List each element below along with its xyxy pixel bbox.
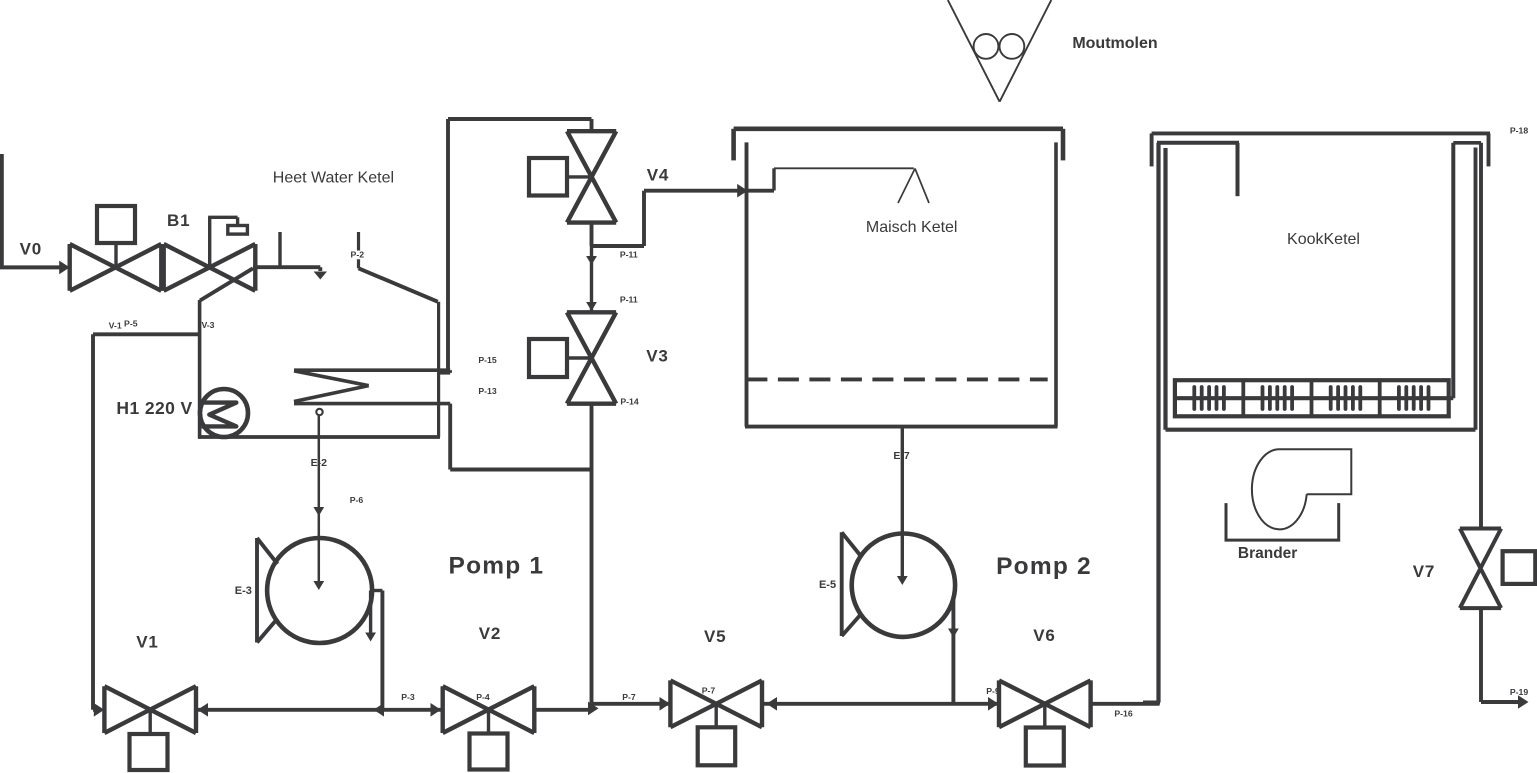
svg-text:V7: V7 [1413, 562, 1435, 581]
svg-text:P-11: P-11 [620, 250, 638, 260]
svg-text:Heet Water Ketel: Heet Water Ketel [273, 169, 394, 186]
svg-text:V1: V1 [136, 632, 158, 651]
svg-text:KookKetel: KookKetel [1287, 231, 1360, 248]
svg-text:H1 220 V: H1 220 V [116, 398, 192, 418]
svg-text:P-7: P-7 [622, 692, 636, 702]
svg-text:E-2: E-2 [311, 457, 328, 469]
svg-text:V2: V2 [479, 624, 501, 643]
svg-text:Maisch Ketel: Maisch Ketel [866, 219, 958, 236]
svg-text:Brander: Brander [1238, 545, 1297, 562]
svg-text:P-18: P-18 [1510, 126, 1529, 136]
svg-text:V4: V4 [647, 165, 669, 184]
svg-text:P-3: P-3 [401, 692, 415, 702]
svg-text:P-14: P-14 [620, 397, 639, 407]
svg-text:P-7: P-7 [702, 686, 716, 696]
svg-text:Pomp 1: Pomp 1 [449, 553, 545, 580]
svg-text:E-3: E-3 [235, 585, 252, 597]
svg-text:V5: V5 [704, 627, 726, 646]
svg-text:P-16: P-16 [1114, 709, 1133, 719]
svg-text:Pomp 2: Pomp 2 [996, 553, 1092, 580]
svg-text:P-6: P-6 [350, 495, 364, 505]
svg-text:V3: V3 [646, 347, 668, 366]
svg-text:P-19: P-19 [1510, 687, 1529, 697]
svg-text:Moutmolen: Moutmolen [1072, 35, 1157, 52]
svg-text:P-5: P-5 [124, 319, 138, 329]
svg-text:P-13: P-13 [478, 386, 497, 396]
svg-text:P-2: P-2 [351, 250, 365, 260]
svg-text:E-5: E-5 [819, 579, 836, 591]
svg-text:P-4: P-4 [476, 692, 490, 702]
svg-text:V-1: V-1 [109, 320, 122, 330]
svg-text:V0: V0 [20, 240, 42, 259]
svg-text:P-11: P-11 [620, 295, 638, 305]
svg-text:B1: B1 [167, 211, 190, 230]
svg-text:E-7: E-7 [893, 450, 910, 462]
svg-text:V-3: V-3 [201, 320, 214, 330]
svg-text:V6: V6 [1033, 626, 1055, 645]
svg-text:P-15: P-15 [478, 355, 497, 365]
